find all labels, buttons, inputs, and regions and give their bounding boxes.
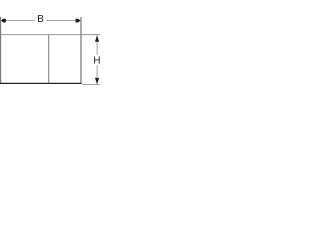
B arrowhead right <box>76 19 81 23</box>
H arrowhead top <box>95 35 99 41</box>
B dimension line, left segment <box>1 20 35 22</box>
B dimension line, right segment <box>46 20 80 22</box>
plate left edge (continues up as extension line for B) <box>0 17 2 84</box>
B arrowhead left <box>1 19 6 23</box>
svg-text:H: H <box>93 56 100 67</box>
plate top edge (continues right as extension line for H) <box>0 34 100 36</box>
H dimension line, lower segment <box>96 65 98 84</box>
H dimension line, upper segment <box>96 36 98 55</box>
plate right edge (continues up as extension line for B) <box>80 17 82 83</box>
background <box>0 0 100 100</box>
plate bottom edge (thick) <box>0 82 82 84</box>
svg-text:B: B <box>37 14 44 25</box>
H arrowhead bottom <box>95 78 99 84</box>
divider line between the two buttons <box>48 35 50 83</box>
bottom extension line for H <box>82 83 100 85</box>
